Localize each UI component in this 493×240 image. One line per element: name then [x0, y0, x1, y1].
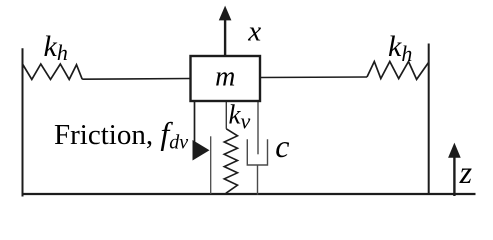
mass m	[191, 56, 261, 101]
svg-text:x: x	[247, 16, 261, 48]
spring kv rod	[225, 100, 227, 129]
svg-text:c: c	[275, 128, 289, 164]
ground line	[22, 193, 476, 195]
svg-text:m: m	[215, 62, 235, 93]
wire right	[260, 76, 367, 79]
svg-text:z: z	[459, 154, 473, 190]
right wall	[428, 44, 430, 196]
spring kh left	[23, 64, 83, 79]
spring kh right	[367, 62, 429, 80]
z arrow	[453, 156, 455, 196]
spring kv	[224, 129, 237, 194]
damper bottom rod	[257, 165, 259, 195]
friction pad triangle	[193, 140, 210, 161]
left wall	[22, 48, 24, 196]
svg-text:kv: kv	[229, 100, 251, 134]
damper piston rod	[257, 100, 259, 154]
svg-text:kh: kh	[44, 30, 68, 65]
damper cylinder	[247, 139, 267, 165]
wire left	[82, 78, 190, 81]
friction rod	[194, 100, 196, 150]
svg-text:Friction, fdv: Friction, fdv	[54, 115, 188, 154]
svg-text:kh: kh	[388, 30, 412, 66]
friction contact surface	[210, 136, 212, 194]
x arrow	[224, 20, 226, 57]
